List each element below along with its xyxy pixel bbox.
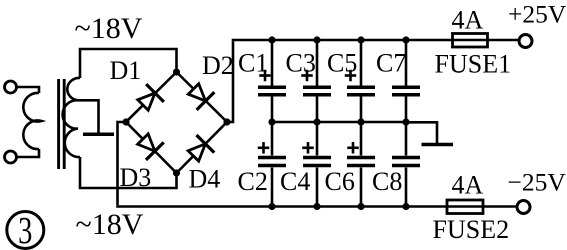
diode D1 (138, 84, 164, 110)
capacitor C7 (392, 40, 420, 122)
label ~18V (top) (75, 12, 143, 45)
svg-text:4A: 4A (452, 6, 484, 35)
capacitor C4 (303, 122, 331, 207)
capacitor C2 (258, 122, 286, 207)
capacitor C6 (347, 122, 375, 207)
svg-text:C2: C2 (238, 167, 268, 196)
terminal circle (primary bottom input) (5, 151, 17, 163)
terminal circle +25V output (519, 35, 532, 48)
label FUSE2 (433, 215, 510, 244)
label C5 (327, 49, 357, 78)
svg-text:C5: C5 (327, 49, 357, 78)
capacitor C3 (303, 40, 331, 122)
node middle rail C1/C2 (268, 118, 275, 125)
wire secondary bottom to bridge bottom vertex (80, 157, 177, 188)
svg-text:C7: C7 (376, 49, 406, 78)
diode D3 (138, 134, 164, 160)
wire bridge edge top-right (177, 72, 228, 122)
svg-text:D1: D1 (110, 56, 142, 85)
transformer core (59, 79, 65, 169)
svg-text:C3: C3 (286, 49, 316, 78)
capacitor C5 (347, 40, 375, 122)
wire center tap to ground (78, 100, 99, 132)
polarity mark + for C4 (302, 142, 314, 154)
wire middle rail to ground (406, 122, 437, 143)
capacitor C1 (258, 40, 286, 122)
svg-text:D4: D4 (189, 165, 221, 194)
wire bridge edge bottom-right (177, 122, 228, 173)
wire right vertex up to positive rail (227, 41, 233, 122)
capacitor C8 (392, 122, 420, 207)
node middle rail C3/C4 (313, 118, 320, 125)
wire secondary top to bridge top vertex (80, 49, 177, 78)
wire primary top lead (17, 87, 40, 93)
figure number 3 (circled) (7, 210, 44, 250)
polarity mark + for C6 (347, 142, 359, 154)
transformer T1 secondary winding (63, 78, 80, 157)
node bridge bottom vertex (173, 169, 180, 176)
fuse FUSE1 (453, 34, 488, 48)
label C2 (238, 167, 268, 196)
node bridge left vertex (122, 118, 129, 125)
svg-text:D3: D3 (120, 163, 152, 192)
label -25V (508, 168, 567, 197)
node bottom rail C6 (357, 203, 364, 210)
label ~18V (bottom) (76, 208, 144, 241)
diode D2 (188, 84, 214, 110)
ground (filter midpoint) (422, 143, 454, 147)
node bottom rail C4 (313, 203, 320, 210)
svg-text:C1: C1 (238, 49, 268, 78)
wire left vertex down to negative rail (118, 122, 127, 205)
label C1 (238, 49, 268, 78)
svg-text:~18V: ~18V (75, 12, 143, 45)
label C8 (372, 167, 402, 196)
label D3 (120, 163, 152, 192)
node middle rail C7/C8 (402, 118, 409, 125)
svg-text:C6: C6 (325, 167, 355, 196)
ground (center tap) (83, 132, 114, 136)
label 4A (FUSE1) (452, 6, 484, 35)
node top rail C1 (268, 36, 275, 43)
label D1 (110, 56, 142, 85)
wire negative bottom rail (116, 205, 517, 208)
label D2 (202, 51, 234, 80)
svg-text:−25V: −25V (508, 168, 567, 197)
wire positive top rail (232, 39, 519, 42)
node bridge right vertex (223, 118, 230, 125)
label C7 (376, 49, 406, 78)
svg-text:FUSE1: FUSE1 (435, 50, 512, 79)
node bottom rail C2 (268, 203, 275, 210)
transformer T1 primary winding (23, 93, 41, 149)
svg-text:C4: C4 (280, 167, 310, 196)
polarity mark + for C5 (345, 70, 357, 82)
wire middle rail (0V) (272, 121, 406, 124)
terminal circle -25V output (517, 201, 530, 214)
svg-text:D2: D2 (202, 51, 234, 80)
label C3 (286, 49, 316, 78)
svg-text:FUSE2: FUSE2 (433, 215, 510, 244)
label +25V (508, 0, 567, 29)
svg-text:C8: C8 (372, 167, 402, 196)
label C4 (280, 167, 310, 196)
label FUSE1 (435, 50, 512, 79)
diode D4 (188, 135, 214, 161)
svg-text:+25V: +25V (508, 0, 567, 29)
node top rail C5 (357, 36, 364, 43)
polarity mark + for C1 (259, 70, 271, 82)
label 4A (FUSE2) (452, 171, 484, 200)
svg-text:~18V: ~18V (76, 208, 144, 241)
svg-text:3: 3 (18, 210, 32, 250)
label D4 (189, 165, 221, 194)
node middle rail C5/C6 (357, 118, 364, 125)
node top rail C7 (402, 36, 409, 43)
terminal circle (primary top input) (5, 81, 17, 93)
node bottom rail C8 (402, 203, 409, 210)
node bridge top vertex (173, 68, 180, 75)
wire bridge edge left-top (126, 72, 177, 122)
wire primary bottom lead (17, 149, 40, 157)
node top rail C3 (313, 36, 320, 43)
polarity mark + for C3 (301, 70, 313, 82)
polarity mark + for C2 (258, 142, 270, 154)
wire bridge edge left-bottom (126, 122, 177, 173)
label C6 (325, 167, 355, 196)
fuse FUSE2 (447, 200, 483, 214)
svg-text:4A: 4A (452, 171, 484, 200)
